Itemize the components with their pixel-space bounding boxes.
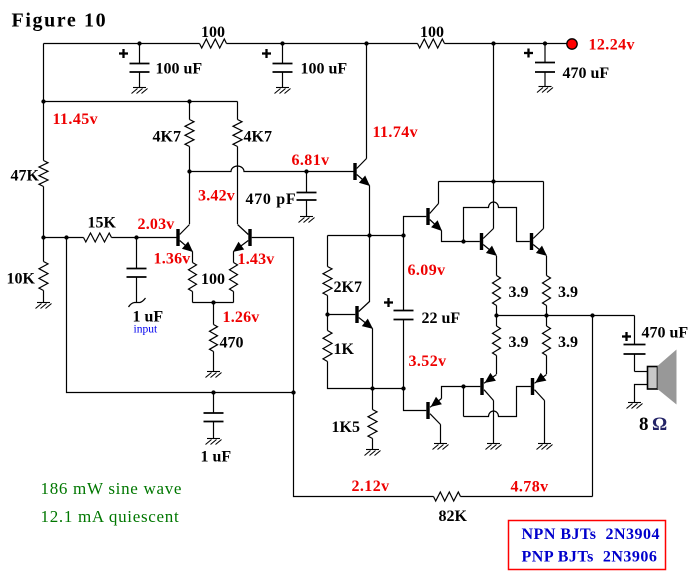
capacitor C8 470uF output [634, 316, 636, 345]
wire Q8 base link [404, 389, 427, 411]
wire 4K7-left branch [189, 102, 191, 225]
svg-text:2.03v: 2.03v [138, 216, 175, 233]
ground under Q10 [537, 444, 553, 450]
wire Q4 emitter down [372, 329, 374, 410]
node junction (293,392) [291, 390, 295, 394]
resistor R16 3.9 upper-right [543, 276, 551, 306]
ground under C4 [299, 217, 315, 223]
wire tail [213, 303, 215, 325]
wire Q8 emitter up to y385 [442, 387, 481, 399]
svg-text:15K: 15K [88, 215, 117, 232]
transistor Q10 PNP output lower right [531, 378, 534, 395]
svg-text:3.9: 3.9 [509, 334, 529, 351]
wire input open terminal squiggle [129, 298, 146, 307]
node junction (546,315) [544, 313, 548, 317]
wire R18 bottom [546, 356, 548, 375]
transistor Q9 PNP output lower mid [480, 378, 483, 395]
transistor Q7 NPN output upper right [530, 233, 533, 250]
wire R17 bottom [496, 356, 498, 375]
wire upper rail y181 [439, 181, 544, 183]
wire Q7 emitter down [546, 256, 548, 276]
node junction (544,43) [543, 41, 547, 45]
wire tail bottom [213, 352, 215, 372]
svg-text:6.81v: 6.81v [292, 152, 330, 169]
resistor R11 2K7 [323, 267, 332, 296]
wire Q3 emitter down [369, 186, 371, 303]
transistor Q4 NPN current source [355, 306, 358, 323]
resistor R12 1K [323, 331, 332, 362]
svg-text:22 uF: 22 uF [422, 310, 461, 327]
wire Q5 base link [404, 217, 427, 236]
svg-text:186 mW sine wave: 186 mW sine wave [41, 479, 183, 498]
wire bias rail y101 [44, 101, 238, 103]
ground under speaker [627, 403, 643, 409]
wire 6.09v node y235 [328, 235, 404, 237]
node junction (372,388) [370, 386, 374, 390]
svg-text:Figure 10: Figure 10 [12, 10, 108, 32]
legend box [509, 521, 666, 570]
node junction (43,237) [41, 235, 45, 239]
svg-text:100 uF: 100 uF [156, 61, 203, 78]
wire center vertical from top rail [493, 44, 495, 229]
wire 4K7-right branch [237, 102, 239, 225]
svg-text:470: 470 [220, 335, 244, 352]
svg-text:3.42v: 3.42v [198, 188, 235, 205]
wire R9 bottom [193, 292, 234, 303]
node junction (282,43) [280, 41, 284, 45]
svg-text:4K7: 4K7 [153, 129, 181, 146]
svg-text:4K7: 4K7 [244, 129, 272, 146]
ground under R13 [365, 450, 381, 456]
svg-text:470 uF: 470 uF [563, 65, 610, 82]
wire Q3 collector to rail [366, 44, 368, 159]
wire top supply rail [44, 43, 567, 45]
resistor R17 3.9 lower-left [493, 326, 501, 356]
node junction (463,386) [461, 384, 465, 388]
wire diff collector to VAS base [190, 166, 354, 172]
svg-text:1.26v: 1.26v [223, 309, 260, 326]
resistor R15 3.9 upper-left [493, 276, 501, 306]
node junction (43,101) [41, 99, 45, 103]
node junction (189,101) [187, 99, 191, 103]
svg-text:470 uF: 470 uF [642, 325, 689, 342]
wire Q5 collector to y181 [438, 182, 440, 204]
svg-text:6.09v: 6.09v [408, 262, 446, 279]
transistor Q2 NPN diff right [248, 229, 251, 246]
resistor R4 10K [39, 262, 48, 291]
svg-text:11.74v: 11.74v [373, 124, 419, 141]
capacitor C3 470uF [544, 44, 546, 63]
node junction (189,171) [187, 169, 191, 173]
wire Q2 emitter [233, 252, 235, 263]
node junction (326.5,314) [325, 312, 329, 316]
node junction (463,241) [461, 239, 465, 243]
svg-text:1.43v: 1.43v [238, 251, 275, 268]
svg-text:1K5: 1K5 [332, 419, 360, 436]
transistor Q3 NPN VAS [353, 163, 356, 180]
svg-text:12.1 mA quiescent: 12.1 mA quiescent [41, 507, 180, 526]
wire upper cross-link with hop [464, 202, 530, 242]
transistor Q8 PNP lower driver [426, 402, 429, 419]
svg-text:1.36v: 1.36v [154, 251, 191, 268]
wire Q6 emitter down [496, 256, 498, 276]
svg-text:47K: 47K [11, 168, 40, 185]
wire Q7 collector up [543, 182, 545, 229]
svg-text:100: 100 [201, 24, 225, 41]
capacitor C5 1uF input [136, 238, 138, 269]
svg-text:8: 8 [639, 414, 649, 435]
node junction (403,235) [401, 233, 405, 237]
resistor R6 4K7 right [233, 120, 242, 147]
svg-text:470 pF: 470 pF [246, 191, 297, 208]
node junction (213,392) [211, 390, 215, 394]
ground under C1 [132, 88, 148, 94]
wire Q10 collector down [544, 401, 546, 444]
node junction (139,43) [137, 41, 141, 45]
node junction (213,302) [211, 300, 215, 304]
wire Q5 emitter to bases [442, 231, 480, 242]
resistor R1 100 (top rail left) [200, 39, 227, 48]
node junction (493,43) [491, 41, 495, 45]
svg-text:10K: 10K [7, 271, 36, 288]
svg-text:3.9: 3.9 [558, 334, 578, 351]
svg-text:PNP BJTs 2N3906: PNP BJTs 2N3906 [522, 549, 658, 566]
svg-text:4.78v: 4.78v [511, 479, 549, 496]
node junction (592,315) [590, 313, 594, 317]
wire R16 bottom [546, 306, 548, 316]
wire R18 top [546, 316, 548, 327]
resistor R10 470 [210, 325, 218, 352]
ground under C2 [275, 88, 291, 94]
wire input base rail y236 [44, 237, 177, 239]
capacitor C7 1uF [213, 393, 215, 414]
svg-text:2K7: 2K7 [334, 279, 362, 296]
wire lower cross-link with hop [464, 387, 531, 417]
wire 2K7-1K node [327, 296, 329, 331]
ground under Q9 [486, 444, 502, 450]
wire R17 top [496, 316, 498, 327]
resistor R5 4K7 left [185, 120, 194, 147]
transistor Q6 NPN output upper mid [480, 233, 483, 250]
wire speaker bottom terminal [635, 385, 648, 403]
resistor R18 3.9 lower-right [543, 326, 551, 356]
ground under C7 [206, 439, 222, 445]
speaker LS1 [648, 367, 658, 390]
svg-text:3.9: 3.9 [509, 284, 529, 301]
wire R8 bottom [192, 292, 194, 303]
wire Q4 base [328, 314, 356, 316]
wire speaker top terminal [635, 371, 648, 373]
svg-text:100: 100 [420, 24, 444, 41]
svg-text:2.12v: 2.12v [352, 478, 390, 495]
wire Q8 collector down [440, 425, 442, 444]
resistor R3 47K [39, 161, 48, 187]
node junction (369,235) [367, 233, 371, 237]
resistor R13 1K5 [368, 410, 377, 439]
resistor R8 100 left [189, 263, 197, 292]
svg-text:100: 100 [201, 271, 225, 288]
resistor R7 15K [84, 233, 112, 242]
svg-text:1 uF: 1 uF [201, 449, 232, 466]
svg-text:NPN BJTs 2N3904: NPN BJTs 2N3904 [522, 526, 661, 543]
svg-text:100 uF: 100 uF [301, 61, 348, 78]
ground under Q8 [433, 444, 449, 450]
transistor Q1 NPN diff left [176, 229, 179, 246]
wire 2K7 top [327, 236, 329, 267]
capacitor C4 470pF [306, 172, 308, 193]
wire output node [497, 315, 635, 317]
svg-text:3.52v: 3.52v [409, 353, 447, 370]
wire Q1 emitter [192, 252, 194, 263]
svg-text:82K: 82K [439, 508, 468, 525]
node supply terminal red dot 12.24v [567, 39, 577, 49]
capacitor C2 100uF [282, 44, 284, 64]
svg-text:input: input [134, 324, 158, 336]
node junction (306,171) [304, 169, 308, 173]
node junction (66,237) [64, 235, 68, 239]
wire Q2 base to feedback [252, 238, 593, 497]
ground under C3 [537, 87, 553, 93]
wire left vertical rail [43, 44, 45, 303]
svg-text:Ω: Ω [652, 414, 667, 435]
wire 1K bottom to y388 [328, 362, 404, 389]
wire R15 bottom [496, 306, 498, 316]
svg-text:11.45v: 11.45v [53, 111, 99, 128]
node junction (366,43) [364, 41, 368, 45]
node junction (136,237) [134, 235, 138, 239]
node junction (403,388) [401, 386, 405, 390]
node junction (493,181) [491, 179, 495, 183]
wire 1K5 bottom [372, 439, 374, 450]
capacitor C6 22uF [403, 236, 405, 311]
ground under R10 [206, 372, 222, 378]
wire Q9 collector down [493, 401, 495, 444]
svg-text:3.9: 3.9 [558, 284, 578, 301]
svg-text:12.24v: 12.24v [589, 37, 635, 54]
resistor R2 100 (top rail right) [418, 39, 445, 48]
resistor R9 100 right [230, 263, 238, 292]
capacitor C1 100uF [139, 44, 141, 64]
wire feedback loop left [67, 238, 294, 393]
resistor R14 82K [434, 492, 461, 501]
node junction (496,315) [494, 313, 498, 317]
ground under 10K [36, 303, 52, 309]
transistor Q5 NPN upper driver [426, 208, 429, 225]
svg-text:1K: 1K [334, 341, 355, 358]
